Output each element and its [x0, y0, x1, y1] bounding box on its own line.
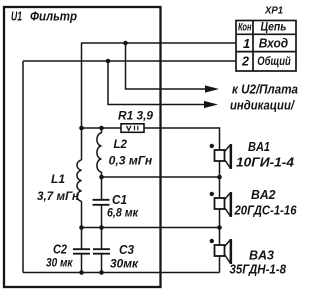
svg-text:0,3 мГн: 0,3 мГн — [109, 154, 153, 168]
resistor R1 — [121, 124, 144, 133]
svg-text:2: 2 — [241, 54, 249, 68]
L1 branch vertical (x=81.5) — [81, 43, 83, 160]
filter box U1 — [4, 7, 161, 287]
svg-text:L1: L1 — [51, 174, 65, 186]
junction L2 top — [99, 126, 104, 131]
svg-text:BA3: BA3 — [249, 249, 274, 263]
svg-text:к U2/Плата: к U2/Плата — [232, 83, 298, 97]
svg-text:20ГДС-1-16: 20ГДС-1-16 — [234, 203, 298, 218]
svg-text:L2: L2 — [114, 137, 128, 151]
svg-text:индикации/: индикации/ — [230, 99, 295, 113]
wire mid to BA1 bottom (y=177) — [102, 176, 220, 178]
svg-text:C3: C3 — [119, 243, 134, 257]
svg-text:6,8 мк: 6,8 мк — [107, 206, 139, 220]
svg-text:Кон: Кон — [238, 22, 252, 34]
speaker BA1 — [215, 144, 233, 169]
rail mid (y=227.5) — [82, 227, 220, 229]
svg-text:1: 1 — [243, 36, 250, 51]
svg-text:Фильтр: Фильтр — [30, 9, 77, 24]
wire to arrow 2 — [108, 61, 205, 105]
svg-text:U1: U1 — [11, 9, 22, 24]
junction C3 bottom — [99, 270, 104, 275]
svg-text:BA1: BA1 — [248, 140, 270, 154]
junction L2 bottom — [99, 175, 104, 180]
junction L1/R1 tap — [79, 126, 84, 131]
wire left branch V1 (x=23) — [22, 61, 24, 273]
capacitor C3 — [101, 228, 103, 249]
wire R1 to BA1 top — [144, 128, 220, 150]
speaker bus (x=219.5) — [219, 161, 221, 273]
svg-text:35ГДН-1-8: 35ГДН-1-8 — [230, 262, 287, 277]
wire L1 to R1 (y=128) — [82, 127, 122, 129]
junction BA2 bottom — [217, 225, 222, 230]
wire common pin2 (y=61) — [23, 60, 236, 62]
capacitor C2 — [81, 228, 83, 249]
polarity dot BA3 — [210, 239, 214, 243]
wire to arrow 1 — [126, 43, 207, 89]
capacitor C1 — [101, 177, 103, 199]
junction rail/L1 — [79, 225, 84, 230]
svg-text:R1 3,9: R1 3,9 — [118, 109, 153, 123]
inductor L1 — [77, 160, 82, 201]
arrowhead 1 — [205, 85, 219, 92]
polarity dot BA1 — [210, 144, 214, 148]
svg-text:30 мк: 30 мк — [46, 255, 73, 269]
junction rail/C1 — [99, 225, 104, 230]
polarity dot BA2 — [210, 192, 214, 196]
svg-text:30мк: 30мк — [110, 256, 139, 270]
junction on common wire — [106, 59, 111, 64]
svg-text:Цепь: Цепь — [261, 20, 287, 34]
rail bottom (y=272.5) — [23, 272, 220, 274]
inductor L2 — [101, 128, 103, 133]
svg-text:Вход: Вход — [259, 37, 289, 51]
svg-text:BA2: BA2 — [251, 188, 276, 202]
junction C2 bottom — [79, 270, 84, 275]
svg-text:3,7 мГн: 3,7 мГн — [37, 189, 80, 203]
speaker BA3 — [215, 239, 233, 264]
connector XP1 table — [236, 21, 296, 72]
wire input pin1 (y=43) — [81, 42, 236, 44]
junction BA1 bottom — [217, 175, 222, 180]
speaker BA2 — [215, 192, 233, 217]
junction on input wire — [123, 41, 128, 46]
svg-text:Общий: Общий — [257, 54, 291, 68]
svg-text:10ГИ-1-4: 10ГИ-1-4 — [236, 155, 295, 170]
arrowhead 2 — [204, 101, 218, 108]
svg-text:XP1: XP1 — [264, 6, 283, 17]
